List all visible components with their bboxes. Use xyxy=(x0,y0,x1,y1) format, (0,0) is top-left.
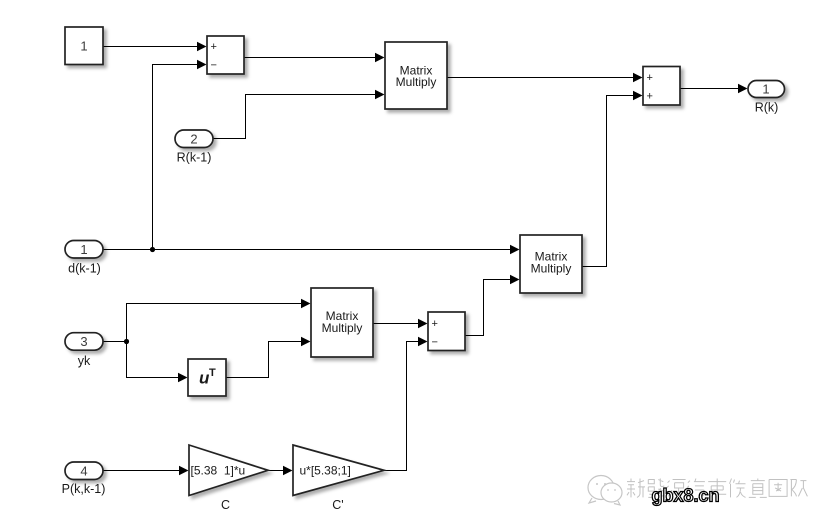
wire: constant1 to sum S0 xyxy=(103,46,198,48)
inport 4 P(k,k-1) xyxy=(65,462,103,480)
svg-text:Multiply: Multiply xyxy=(396,75,437,89)
svg-text:−: − xyxy=(431,337,437,349)
arrow into S2 plus xyxy=(418,319,428,329)
svg-text:−: − xyxy=(210,60,216,72)
wire: yk branch up to MM2 in1 xyxy=(127,304,303,342)
wire: P(k,k-1) inport to gain C xyxy=(103,470,180,472)
wire: gain C to gain C2 xyxy=(268,470,284,472)
arrow into uT xyxy=(178,373,188,383)
wire: sum S0 out to MM1 in1 xyxy=(244,57,376,59)
product MM3 Matrix Multiply xyxy=(520,235,582,293)
svg-text:R(k): R(k) xyxy=(755,101,779,115)
wire: uT out to MM2 in2 xyxy=(226,342,302,378)
arrow into MM3 in1 xyxy=(510,245,520,255)
svg-text:2: 2 xyxy=(190,131,197,146)
arrow into MM2 in1 xyxy=(301,299,311,309)
node: junction on yk wire xyxy=(124,339,129,344)
sum S2 (+ -) xyxy=(428,312,465,351)
svg-text:u*[5.38;1]: u*[5.38;1] xyxy=(300,464,351,478)
inport 3 yk xyxy=(65,333,103,351)
arrow into MM3 in2 xyxy=(510,275,520,285)
svg-text:T: T xyxy=(209,367,216,379)
arrow into S1 in1 xyxy=(633,73,643,83)
outport 1 R(k) xyxy=(748,81,785,98)
arrow into S2 minus xyxy=(418,337,428,347)
svg-text:[5.38 1]*u: [5.38 1]*u xyxy=(191,464,246,478)
svg-text:d(k-1): d(k-1) xyxy=(68,262,101,276)
inport 2 R(k-1) xyxy=(175,130,213,148)
product MM1 Matrix Multiply xyxy=(385,42,447,109)
product MM2 Matrix Multiply xyxy=(311,288,373,357)
gain C2 u*[5.38;1] xyxy=(293,445,384,496)
svg-text:1: 1 xyxy=(762,82,769,97)
arrow into MM1 in1 xyxy=(375,53,385,63)
constant block K1 value 1 xyxy=(65,27,103,65)
wire: MM1 out to sum S1 in1 xyxy=(447,77,634,79)
arrowheads xyxy=(178,42,748,476)
sum S1 (+ +) xyxy=(643,67,680,106)
svg-text:+: + xyxy=(646,72,652,84)
wire: MM3 out up to sum S1 in2 xyxy=(582,96,634,267)
arrow into MM1 in2 xyxy=(375,90,385,100)
svg-text:R(k-1): R(k-1) xyxy=(177,151,212,165)
wire: yk inport to junction xyxy=(103,341,127,343)
svg-text:P(k,k-1): P(k,k-1) xyxy=(62,482,106,496)
arrow into S0 minus xyxy=(197,60,207,70)
svg-text:gbx8.cn: gbx8.cn xyxy=(652,486,720,506)
svg-text:3: 3 xyxy=(80,334,87,349)
svg-text:+: + xyxy=(431,318,437,330)
svg-text:1: 1 xyxy=(80,242,87,257)
arrow into gain C2 xyxy=(283,466,293,476)
arrow into gain C xyxy=(179,466,189,476)
svg-text:4: 4 xyxy=(80,463,87,478)
svg-text:C: C xyxy=(221,498,230,512)
wire: gain C2 up to sum S2 minus xyxy=(384,342,419,471)
wire: d(k-1) branch up to sum S0 minus xyxy=(153,65,199,250)
wire: MM2 out to sum S2 plus xyxy=(373,323,419,325)
svg-text:1: 1 xyxy=(80,38,87,53)
svg-text:Multiply: Multiply xyxy=(531,261,572,275)
svg-text:+: + xyxy=(646,91,652,103)
arrow into S0 plus xyxy=(197,42,207,52)
wire: sum S1 out to outport R(k) xyxy=(680,88,739,90)
wire: R(k-1) inport to MM1 in2 xyxy=(213,95,376,139)
math function uT transpose xyxy=(188,359,226,396)
wire: sum S2 out up to MM3 in2 xyxy=(465,280,511,336)
svg-text:Multiply: Multiply xyxy=(322,321,363,335)
svg-text:+: + xyxy=(210,41,216,53)
watermark icon (chat bubbles) xyxy=(588,476,622,506)
wire: d(k-1) inport to MM3 in1 xyxy=(103,249,511,251)
watermark pseudo CJK text xyxy=(627,479,807,498)
wire: yk branch down to uT xyxy=(127,342,180,378)
gain C [5.38 1]*u xyxy=(189,445,268,496)
svg-text:yk: yk xyxy=(78,354,91,368)
sum S0 (+ -) xyxy=(207,36,244,74)
svg-text:C': C' xyxy=(332,498,343,512)
arrow into outport R(k) xyxy=(738,84,748,94)
arrow into MM2 in2 xyxy=(301,337,311,347)
inport 1 d(k-1) xyxy=(65,241,103,259)
node: junction on d(k-1) wire xyxy=(150,247,155,252)
arrow into S1 in2 xyxy=(633,91,643,101)
